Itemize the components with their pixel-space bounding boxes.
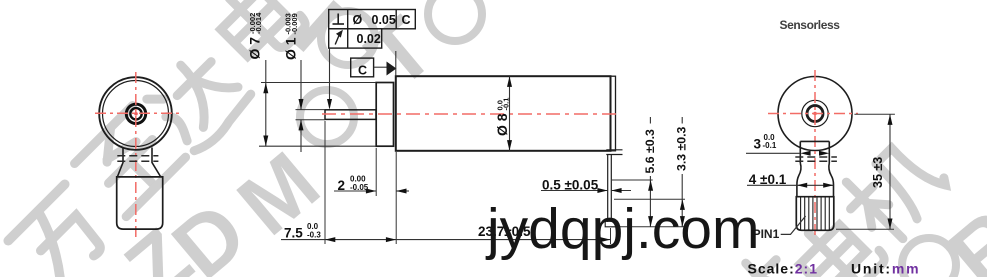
centerline vertical [814,70,816,236]
dim 35 line [889,114,891,229]
svg-text:Ø: Ø [353,13,363,27]
fpc exit slot [606,149,622,151]
ext line 3.3 [614,198,685,200]
center dot [813,112,817,116]
watermark char ji right [835,131,954,250]
svg-text:R: R [932,192,987,277]
tab side left [799,141,801,163]
35 ext line from axis [854,113,895,115]
svg-text:7.5: 7.5 [284,226,303,241]
dia8 label [494,98,511,136]
flange line upper [795,156,837,158]
svg-text:-0.3: -0.3 [307,230,321,239]
flange line upper [117,155,158,157]
fpc tab [607,155,609,223]
perpendicularity symbol [333,14,345,25]
hub bearing circle [807,106,823,122]
svg-text:C: C [402,13,411,27]
connector pins [801,198,830,230]
svg-text:Scale:2:1: Scale:2:1 [748,261,818,277]
site watermark jydqpj.com [487,196,759,262]
dia1 ext lines [296,109,326,111]
dim 5.6 line [649,117,651,124]
datum extension line [395,51,397,76]
svg-text:0.02: 0.02 [357,32,381,46]
35 ext line bottom [836,228,894,230]
dim 23.7 line [396,239,610,241]
body circle [778,77,852,151]
ext line boss left [375,148,377,196]
motor body circle Ø8 [99,77,172,150]
watermark char dian right [789,206,888,277]
svg-text:Ø 7: Ø 7 [247,37,263,60]
centerline vertical [135,72,137,241]
dia7 ext line top [261,82,376,84]
svg-text:Sensorless: Sensorless [780,18,841,32]
svg-text:-0.009: -0.009 [290,13,299,34]
datum leader [374,66,388,68]
center dot [134,112,138,116]
watermark letter O2 [321,11,375,65]
tab notch top chord [800,140,829,142]
svg-text:35 ±3: 35 ±3 [871,157,885,188]
front boss [376,83,393,147]
runout leader arrow [329,48,331,107]
svg-text:-0.1: -0.1 [763,141,777,150]
motor body [396,76,611,151]
fpc foot [605,221,617,227]
dia1 dim line + arrows [300,60,302,109]
boss circle Ø7 [103,81,169,147]
watermark letter O4 [902,238,956,277]
dim 2 line [334,190,376,192]
centerline horizontal [768,113,858,115]
runout symbol [335,31,342,44]
datum C box [351,58,374,77]
svg-text:-0.014: -0.014 [254,12,263,34]
PIN1 leader [781,216,806,234]
dim 4 line [747,184,797,186]
neck right side [152,148,161,177]
dia7 ext line bottom [259,145,376,147]
centerline horizontal [95,112,180,114]
svg-text:-0.1: -0.1 [502,98,511,111]
centerline axis [322,113,621,115]
dia7 label [247,12,264,60]
dim 0.5 lines [541,190,608,192]
feature control frame row1 [329,10,416,29]
ext line body front [395,152,397,244]
connector body (bottle) [117,177,163,229]
svg-text:Ø 1: Ø 1 [282,37,298,60]
svg-text:5.6 ±0.3: 5.6 ±0.3 [643,129,657,174]
dim 7.5 line [281,239,396,241]
dim 3 leader [746,152,800,154]
dia7 dim line [265,60,267,146]
watermark char da right partial [710,243,820,277]
svg-text:3.3 ±0.3: 3.3 ±0.3 [675,126,689,171]
tab side right [828,141,830,163]
shaft ring [130,108,141,119]
svg-text:Ø 8: Ø 8 [494,113,510,136]
neck left side [118,148,124,177]
ext line tab bottom [611,226,686,228]
watermark char da [145,45,255,155]
dia8 dim line [509,76,511,151]
bearing ring [126,104,145,123]
neck bell right [829,163,834,197]
ext line body rear [610,228,612,244]
svg-text:C: C [358,64,367,78]
watermark char wan [8,184,116,277]
watermark char zhi [74,105,186,217]
dia1 label [282,13,299,60]
datum triangle [387,62,397,76]
watermark letter O3 [428,0,482,41]
feature control frame row2 [329,29,382,48]
flange line lower [795,160,837,162]
watermark stroke fragment [299,4,338,48]
watermark letter O1 [300,90,354,144]
watermark char dian [210,0,309,70]
svg-text:0.05: 0.05 [372,13,396,27]
ext line shaft tip [324,121,326,244]
dim 3.3 line [681,117,683,124]
ext line 5.6 [612,179,653,181]
hub outer circle [802,100,828,126]
rear cap [611,76,616,151]
shaft [325,110,376,120]
flange line lower [117,160,158,162]
svg-text:3: 3 [754,137,762,152]
connector block [796,197,834,231]
neck bell left [797,163,801,197]
svg-text:Unit:mm: Unit:mm [851,261,920,277]
